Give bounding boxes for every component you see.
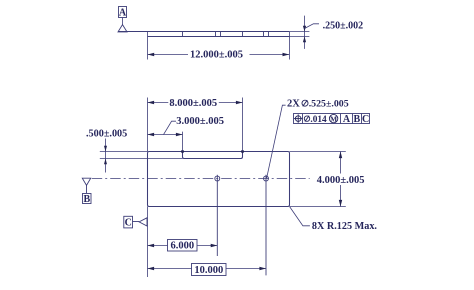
svg-text:.014: .014 [310, 115, 327, 125]
junction dot at step right corner [241, 150, 244, 153]
callout 8X R.125 Max. leader [290, 207, 310, 226]
datum B label box [83, 194, 92, 205]
extension lines .250 [289, 32, 309, 37]
datum C leader [133, 221, 140, 223]
hole 1 right edge tick (top view) [220, 32, 222, 37]
junction dot at step left corner [181, 150, 184, 153]
dimension 8.000&#177;.005 [148, 97, 243, 109]
svg-text:10.000: 10.000 [194, 265, 223, 276]
svg-text:.500±.005: .500±.005 [86, 129, 127, 140]
hole 1 left edge tick (top view) [215, 32, 217, 37]
dimension 4.000&#177;.005 [316, 152, 367, 207]
dimension .500&#177;.005 [86, 129, 127, 173]
extension lines .500 (top edge and step floor) [100, 152, 183, 159]
feature control frame box [294, 114, 370, 124]
extension lines 4.000 [290, 152, 346, 207]
top view plate right edge + 12.000 right extension line [289, 32, 291, 60]
svg-text:3.000±.005: 3.000±.005 [176, 116, 224, 127]
svg-text:M: M [330, 114, 337, 123]
tolerance value diameter .014 MMC [304, 114, 338, 124]
left edge extension line below part [147, 207, 149, 278]
hole 2 right edge tick (top view) [268, 32, 270, 37]
svg-text:.250±.002: .250±.002 [323, 21, 364, 32]
horizontal centerline [92, 178, 310, 180]
svg-text:8.000±.005: 8.000±.005 [169, 98, 217, 109]
extension line at step 3.000 [182, 132, 184, 152]
main view part outline (12.000 x 4.000) [148, 152, 290, 207]
hole 2 circle (10.000 location) [264, 176, 269, 181]
callout 2X &#8960;.525&#177;.005 leader [267, 105, 286, 178]
datum C label box [124, 216, 133, 228]
svg-text:4.000±.005: 4.000±.005 [317, 175, 365, 186]
datum C triangle [139, 218, 147, 226]
step edge tick at 8.000 (top view) [242, 32, 244, 37]
hole 2 vertical extension line [265, 175, 267, 276]
dimension 3.000&#177;.005 [148, 116, 225, 136]
position symbol [294, 114, 302, 122]
hole 1 vertical extension line [216, 175, 218, 256]
datum B triangle [82, 178, 90, 185]
step edge tick at 3.000 (top view) [182, 32, 184, 37]
svg-text:8X R.125 Max.: 8X R.125 Max. [312, 221, 378, 232]
basic dimension 10.000 [148, 264, 267, 276]
svg-text:C: C [362, 114, 369, 125]
svg-text:B: B [353, 114, 360, 125]
basic dimension 6.000 [148, 240, 218, 252]
datum A stem [122, 18, 124, 25]
svg-text:A: A [119, 7, 127, 18]
dimension line 12.000 [148, 49, 290, 61]
top view plate bottom edge [148, 36, 290, 38]
callout 2X diameter .525 text [287, 99, 349, 110]
svg-text:B: B [83, 194, 90, 205]
svg-text:6.000: 6.000 [170, 241, 194, 252]
dimension .250&#177;.002 [303, 16, 363, 49]
svg-text:.525±.005: .525±.005 [309, 99, 349, 110]
datum A label box [119, 7, 127, 19]
svg-text:2X: 2X [287, 99, 300, 110]
top view plate top edge (with extension to datum A) [118, 31, 289, 33]
hole 2 left edge tick (top view) [263, 32, 265, 37]
svg-text:12.000±.005: 12.000±.005 [190, 50, 243, 61]
svg-text:A: A [343, 114, 351, 125]
extension line at step 8.000 [242, 98, 244, 152]
left edge extension line above part [147, 98, 149, 152]
datum A triangle [118, 25, 127, 32]
top view plate left edge + 12.000 left extension line [147, 32, 149, 60]
datum B stem [86, 185, 88, 193]
hole 1 circle (6.000 location) [215, 176, 220, 181]
step recess outline (.500 deep, 3.000 to 8.000) [183, 152, 243, 159]
svg-text:C: C [125, 218, 132, 229]
